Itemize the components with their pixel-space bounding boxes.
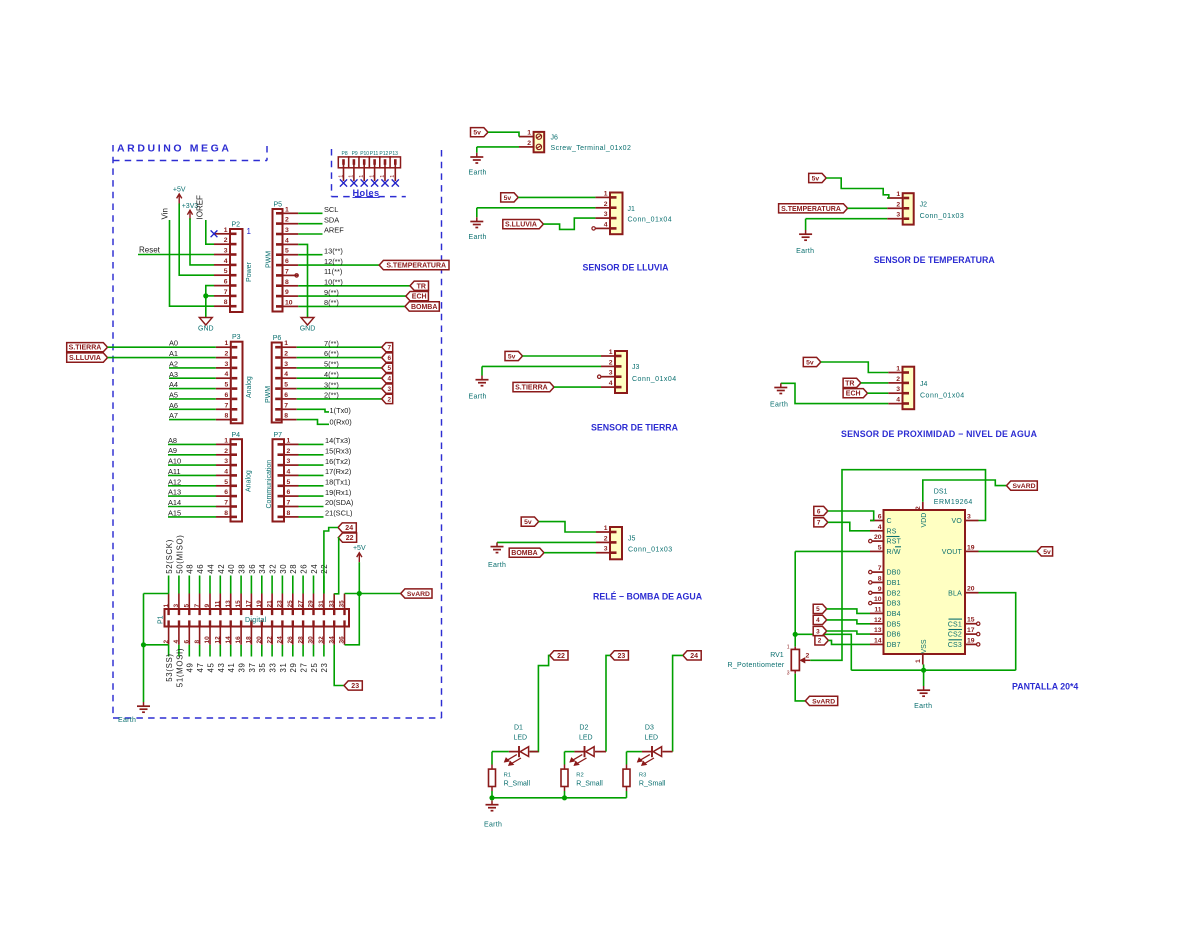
label AREF xyxy=(324,226,344,235)
wire P6.1 to hier 7 xyxy=(297,346,382,348)
svg-text:3: 3 xyxy=(388,386,392,393)
svg-text:2: 2 xyxy=(284,351,288,358)
svg-text:DB5: DB5 xyxy=(887,621,901,628)
wire R2 to earth rail xyxy=(564,791,566,798)
svg-text:Analog: Analog xyxy=(246,470,253,492)
svg-text:24: 24 xyxy=(690,653,698,660)
svg-text:IOREF: IOREF xyxy=(196,195,205,220)
hier label 5v (J4) xyxy=(803,357,821,366)
svg-text:DB0: DB0 xyxy=(887,570,901,577)
label LED (D3) xyxy=(645,735,659,742)
wire P1 bottom pin 20 label 35 xyxy=(261,645,263,657)
label A6 xyxy=(169,401,178,410)
svg-text:23: 23 xyxy=(351,683,359,690)
ground Earth (J2) xyxy=(796,230,814,255)
svg-text:SENSOR DE LLUVIA: SENSOR DE LLUVIA xyxy=(583,262,670,272)
wire TR to J4.2 xyxy=(861,382,889,384)
wire hier 22 to P1 pin 33 xyxy=(334,538,339,594)
ground Earth (J5) xyxy=(488,542,506,569)
svg-text:31: 31 xyxy=(318,600,325,608)
svg-text:2: 2 xyxy=(604,201,608,208)
label 49 (vertical) xyxy=(186,662,195,672)
wire P1 top pin 9 label 44 xyxy=(209,576,211,594)
svg-text:S.LLUVIA: S.LLUVIA xyxy=(69,355,101,362)
wire P1 top pin 1 label 52(SCK) xyxy=(168,576,170,594)
svg-text:SENSOR DE TEMPERATURA: SENSOR DE TEMPERATURA xyxy=(874,255,996,265)
svg-text:Earth: Earth xyxy=(488,562,506,569)
svg-text:3: 3 xyxy=(287,458,291,465)
svg-text:28: 28 xyxy=(297,636,304,644)
svg-text:6: 6 xyxy=(224,279,228,286)
svg-text:SCL: SCL xyxy=(324,205,338,214)
svg-text:1: 1 xyxy=(359,175,365,178)
svg-text:3: 3 xyxy=(967,514,971,521)
DS1 pin 15 CS1 xyxy=(948,617,980,629)
svg-text:A13: A13 xyxy=(168,488,181,497)
hier label 23 xyxy=(344,681,362,690)
hier label ECH (J4) xyxy=(843,389,867,398)
svg-text:33: 33 xyxy=(328,600,335,608)
hier label 23 (LED D2) xyxy=(610,651,628,660)
hole connector P12 (1-pin) xyxy=(380,157,390,181)
connector P1 (Digital, 36-pin) xyxy=(158,594,350,645)
svg-text:RV1: RV1 xyxy=(770,652,784,659)
svg-text:2: 2 xyxy=(806,653,810,660)
svg-text:27: 27 xyxy=(297,600,304,608)
svg-text:3: 3 xyxy=(284,361,288,368)
label 39 (vertical) xyxy=(238,662,247,672)
hole connector P11 (1-pin) xyxy=(369,157,379,181)
label D2 xyxy=(579,725,588,732)
svg-text:P13: P13 xyxy=(389,151,398,157)
svg-text:50(MISO): 50(MISO) xyxy=(175,534,184,573)
svg-text:R/W: R/W xyxy=(887,549,901,556)
svg-text:10: 10 xyxy=(204,636,211,644)
svg-text:1: 1 xyxy=(224,227,228,234)
svg-text:1: 1 xyxy=(390,175,396,178)
svg-text:22: 22 xyxy=(557,653,565,660)
svg-text:3: 3 xyxy=(896,212,900,219)
svg-text:7: 7 xyxy=(284,402,288,409)
IC DS1 ERM19264 (display) xyxy=(884,489,973,655)
svg-text:2: 2 xyxy=(818,638,822,645)
wire P1 top pin 31 label 22 xyxy=(323,576,325,594)
wire J5.2 to Earth xyxy=(497,541,596,543)
svg-text:6: 6 xyxy=(817,508,821,515)
ground Earth (J3) xyxy=(469,376,489,401)
label A9 xyxy=(168,446,177,455)
wire P5.4 to GND xyxy=(298,244,307,317)
svg-text:+5V: +5V xyxy=(173,187,186,194)
hier label SvARD xyxy=(401,589,432,598)
svg-text:1: 1 xyxy=(224,437,228,444)
svg-text:4: 4 xyxy=(287,468,291,475)
wire P6.7 1(Tx0) xyxy=(297,409,329,412)
wire P1 top pin 5 label 48 xyxy=(188,576,190,594)
svg-text:A7: A7 xyxy=(169,411,178,420)
wire 5v to J6.1 xyxy=(488,132,519,136)
svg-text:3: 3 xyxy=(896,386,900,393)
svg-text:7: 7 xyxy=(225,402,229,409)
svg-text:5(**): 5(**) xyxy=(324,360,339,369)
sheet box ARDUINO MEGA (dashed) xyxy=(113,143,442,719)
wire P1 bottom pin 28 label 27 xyxy=(302,645,304,657)
svg-text:2: 2 xyxy=(527,140,531,147)
hier label 5v (VOUT) xyxy=(1037,547,1053,556)
svg-text:17(Rx2): 17(Rx2) xyxy=(325,467,351,476)
svg-text:Earth: Earth xyxy=(118,717,136,724)
hier label 5 xyxy=(382,363,393,372)
svg-text:2: 2 xyxy=(224,448,228,455)
hier label 3 xyxy=(382,384,393,393)
wire hier 7 to DS1 RS xyxy=(828,522,870,531)
open pin end P5.7 xyxy=(295,274,298,277)
label 9(**) xyxy=(324,288,339,297)
svg-text:A4: A4 xyxy=(169,380,178,389)
wire J2.3 to Earth xyxy=(806,218,888,220)
label 7(**) xyxy=(324,339,339,348)
svg-text:4(**): 4(**) xyxy=(324,370,339,379)
svg-text:DB2: DB2 xyxy=(887,590,901,597)
svg-text:1: 1 xyxy=(380,175,386,178)
wire A4 to P3.5 xyxy=(169,388,216,390)
no-connect X on P10 xyxy=(361,179,368,186)
svg-text:34: 34 xyxy=(328,636,335,644)
svg-text:A14: A14 xyxy=(168,498,181,507)
svg-text:14: 14 xyxy=(225,636,232,644)
label SDA xyxy=(324,215,339,224)
svg-text:8: 8 xyxy=(878,575,882,582)
svg-text:Earth: Earth xyxy=(914,703,932,710)
label A1 xyxy=(169,349,178,358)
svg-text:20(SDA): 20(SDA) xyxy=(325,498,353,507)
wire P1 bottom pin 6 label 49 xyxy=(188,645,190,657)
svg-text:J1: J1 xyxy=(628,206,636,213)
svg-text:7(**): 7(**) xyxy=(324,339,339,348)
svg-text:D2: D2 xyxy=(579,725,588,732)
label 45 (vertical) xyxy=(206,662,215,672)
svg-text:+5V: +5V xyxy=(353,545,366,552)
note SENSOR DE PROXIMIDAD xyxy=(841,429,1038,439)
wire P5.10 BOMBA xyxy=(298,305,405,307)
svg-text:52(SCK): 52(SCK) xyxy=(165,539,174,574)
svg-text:6: 6 xyxy=(388,355,392,362)
label 48 (vertical) xyxy=(186,564,195,574)
wire hier 23 to D2 anode xyxy=(606,655,610,751)
svg-text:2: 2 xyxy=(225,351,229,358)
svg-text:23: 23 xyxy=(320,662,329,672)
wire A7 to P3.8 xyxy=(169,419,216,421)
wire bottom rail xyxy=(851,669,1015,671)
svg-text:2: 2 xyxy=(224,237,228,244)
svg-text:A8: A8 xyxy=(168,436,177,445)
wire down to RV1 pin1 xyxy=(794,551,796,646)
wire LED earth rail xyxy=(492,797,627,799)
svg-text:51(MOSI): 51(MOSI) xyxy=(175,648,184,687)
hole refs P8..P13 xyxy=(342,151,399,157)
hier label TR xyxy=(410,281,429,290)
connector J2 Conn_01x03 xyxy=(887,191,964,225)
hier label SvARD (RV1) xyxy=(805,696,837,705)
hier label S.LLUVIA xyxy=(67,353,108,362)
label 38 (vertical) xyxy=(238,564,247,574)
wire down to Earth xyxy=(143,645,145,702)
svg-text:12: 12 xyxy=(215,636,222,644)
svg-text:GND: GND xyxy=(300,326,316,333)
svg-text:RELÉ − BOMBA DE AGUA: RELÉ − BOMBA DE AGUA xyxy=(593,592,703,602)
svg-text:53(SS): 53(SS) xyxy=(165,653,174,681)
wire P7.8 21(SCL) xyxy=(299,516,324,518)
svg-text:0(Rx0): 0(Rx0) xyxy=(330,418,352,427)
svg-text:DB1: DB1 xyxy=(887,580,901,587)
label 12(**) xyxy=(324,257,343,266)
label 6(**) xyxy=(324,349,339,358)
label 28 (vertical) xyxy=(289,564,298,574)
svg-text:Conn_01x04: Conn_01x04 xyxy=(632,376,677,383)
svg-text:A9: A9 xyxy=(168,446,177,455)
hole connector P13 (1-pin) xyxy=(390,157,400,181)
label 17(Rx2) xyxy=(325,467,351,476)
svg-text:P11: P11 xyxy=(370,151,379,157)
svg-text:S.TIERRA: S.TIERRA xyxy=(69,345,102,352)
label 24 (vertical) xyxy=(310,564,319,574)
svg-text:VO: VO xyxy=(951,518,962,525)
wire D3 to R3 xyxy=(627,751,642,753)
wire P7.6 19(Rx1) xyxy=(299,495,324,497)
wire R3 to earth rail xyxy=(626,791,628,798)
wire down to Earth (J6) xyxy=(476,147,478,153)
svg-text:AREF: AREF xyxy=(324,226,344,235)
svg-text:LED: LED xyxy=(645,735,659,742)
svg-text:19: 19 xyxy=(967,637,975,644)
svg-text:TR: TR xyxy=(417,283,426,290)
svg-text:Holes: Holes xyxy=(353,188,380,198)
svg-text:39: 39 xyxy=(238,662,247,672)
svg-text:Communication: Communication xyxy=(266,460,273,509)
wire P6.4 to hier 4 xyxy=(297,377,382,379)
wire RV1 pin3 to SvARD xyxy=(795,674,805,701)
svg-text:P12: P12 xyxy=(379,151,388,157)
svg-text:J6: J6 xyxy=(551,135,559,142)
svg-text:7: 7 xyxy=(194,604,201,608)
wire Vin to P2.8 xyxy=(170,220,215,306)
svg-text:25: 25 xyxy=(287,600,294,608)
svg-text:3: 3 xyxy=(604,546,608,553)
svg-text:24: 24 xyxy=(345,525,353,532)
wire J1.2 to Earth xyxy=(477,207,596,209)
svg-text:9: 9 xyxy=(204,604,211,608)
label 19(Rx1) xyxy=(325,488,351,497)
svg-text:35: 35 xyxy=(339,600,346,608)
svg-text:5v: 5v xyxy=(504,195,512,202)
junction R1 rail xyxy=(489,795,494,800)
ground Earth (J6) xyxy=(469,153,487,177)
hier label 7 xyxy=(814,518,828,527)
svg-text:BOMBA: BOMBA xyxy=(511,550,537,557)
wire P1 top pin 13 label 40 xyxy=(230,576,232,594)
wire P1 bottom pin 12 label 43 xyxy=(219,645,221,657)
wire hier 24 to D3 anode xyxy=(673,655,683,751)
connector J4 Conn_01x04 xyxy=(888,366,964,410)
svg-text:19(Rx1): 19(Rx1) xyxy=(325,488,351,497)
svg-text:2: 2 xyxy=(609,359,613,366)
svg-text:RST: RST xyxy=(887,539,902,546)
svg-text:3: 3 xyxy=(224,458,228,465)
wire P1 top pin 27 label 26 xyxy=(302,576,304,594)
svg-text:Earth: Earth xyxy=(469,169,487,176)
hier label S.TIERRA (J3) xyxy=(513,382,554,391)
wire P1 top pin 23 label 30 xyxy=(281,576,283,594)
hier label ECH xyxy=(406,292,429,301)
wire P5.2 SDA xyxy=(298,223,322,225)
wire hier 2 to DB7 xyxy=(828,640,870,644)
svg-text:17: 17 xyxy=(246,600,253,608)
svg-text:J2: J2 xyxy=(920,202,928,209)
svg-text:4: 4 xyxy=(224,258,228,265)
svg-text:4: 4 xyxy=(609,380,613,387)
svg-text:28: 28 xyxy=(289,564,298,574)
wire P1 top pin 3 label 50(MISO) xyxy=(178,576,180,594)
svg-text:DB4: DB4 xyxy=(887,611,901,618)
label A8 xyxy=(168,436,177,445)
wire VDD to SvARD xyxy=(923,480,1007,502)
svg-text:5: 5 xyxy=(224,268,228,275)
label A4 xyxy=(169,380,178,389)
DS1 pin 11 DB4 xyxy=(870,606,901,618)
connector P4 (Analog A8-A15) xyxy=(216,432,253,522)
wire S.TIERRA to J3.4 xyxy=(554,386,601,388)
wire BOMBA to J5.3 xyxy=(544,552,596,554)
svg-text:J4: J4 xyxy=(920,381,928,388)
hier label 4 xyxy=(813,615,827,624)
svg-text:18: 18 xyxy=(246,636,253,644)
DS1 pin 10 DB3 xyxy=(869,596,901,608)
svg-text:13: 13 xyxy=(874,627,882,634)
svg-text:44: 44 xyxy=(206,564,215,574)
svg-text:Earth: Earth xyxy=(796,248,814,255)
wire A9 to P4.2 xyxy=(168,454,216,456)
svg-text:P5: P5 xyxy=(274,202,283,209)
svg-text:4: 4 xyxy=(604,221,608,228)
wire A6 to P3.7 xyxy=(169,408,216,410)
note PANTALLA 20*4 xyxy=(1012,682,1078,692)
svg-text:19: 19 xyxy=(967,544,975,551)
svg-text:D1: D1 xyxy=(514,725,523,732)
svg-text:4: 4 xyxy=(225,371,229,378)
label A15 xyxy=(168,508,181,517)
svg-text:6: 6 xyxy=(284,392,288,399)
wire A10 to P4.3 xyxy=(168,464,216,466)
svg-text:45: 45 xyxy=(206,662,215,672)
label A10 xyxy=(168,457,181,466)
label 26 (vertical) xyxy=(300,564,309,574)
svg-text:19: 19 xyxy=(256,600,263,608)
svg-text:2: 2 xyxy=(896,201,900,208)
svg-text:3(**): 3(**) xyxy=(324,380,339,389)
svg-text:CS2: CS2 xyxy=(948,632,962,639)
label Reset xyxy=(139,246,161,255)
svg-text:PWM: PWM xyxy=(265,251,272,268)
wire down to Earth (J1) xyxy=(476,208,478,218)
svg-text:P8: P8 xyxy=(342,151,348,157)
ground Earth (LED rail) xyxy=(484,801,502,829)
wire P1 pin34 to hier 23 xyxy=(334,645,344,686)
wire 5v to J5.1 xyxy=(539,522,596,532)
no-connect X on P9 xyxy=(350,179,357,186)
hier label TR (J4) xyxy=(843,378,861,387)
svg-text:Vin: Vin xyxy=(160,208,169,219)
svg-text:4: 4 xyxy=(284,371,288,378)
wire R/W to RV1 node xyxy=(795,550,870,552)
power +5V near P1 xyxy=(353,545,366,562)
wire P1 bottom pin 24 label 31 xyxy=(281,645,283,657)
DS1 pin 6 C xyxy=(870,514,892,526)
svg-text:22: 22 xyxy=(320,564,329,574)
svg-text:1: 1 xyxy=(284,340,288,347)
svg-text:36: 36 xyxy=(339,636,346,644)
wire rail down to P1 pin36 xyxy=(345,594,360,645)
resistor R1 xyxy=(489,765,531,792)
svg-text:Earth: Earth xyxy=(469,234,487,241)
note SENSOR DE TEMPERATURA xyxy=(874,255,996,265)
wire A8 to P4.1 xyxy=(168,443,216,445)
svg-text:29: 29 xyxy=(308,600,315,608)
wire D1 to R1 xyxy=(492,751,509,753)
DS1 pin 8 DB1 xyxy=(869,575,901,587)
wire hier 5 to DB4 xyxy=(827,609,870,614)
connector P6 (PWM 7-2) xyxy=(265,335,297,423)
svg-text:15(Rx3): 15(Rx3) xyxy=(325,446,351,455)
svg-text:S.TIERRA: S.TIERRA xyxy=(515,385,548,392)
svg-text:5v: 5v xyxy=(1043,549,1051,556)
hier label 4 xyxy=(382,374,393,383)
wire A5 to P3.6 xyxy=(169,398,216,400)
svg-text:13: 13 xyxy=(225,600,232,608)
svg-text:6: 6 xyxy=(285,258,289,265)
svg-text:23: 23 xyxy=(618,653,626,660)
svg-text:SENSOR DE TIERRA: SENSOR DE TIERRA xyxy=(591,423,679,433)
label 11(**) xyxy=(324,267,342,276)
label D3 xyxy=(645,725,654,732)
svg-text:ECH: ECH xyxy=(846,391,861,398)
svg-text:DB7: DB7 xyxy=(887,642,901,649)
wire P6.8 0(Rx0) xyxy=(297,420,329,425)
svg-text:13(**): 13(**) xyxy=(324,246,343,255)
hier label 3 xyxy=(813,626,827,635)
svg-text:36: 36 xyxy=(248,564,257,574)
DS1 pin 17 CS2 xyxy=(948,627,980,639)
label 14(Tx3) xyxy=(325,436,350,445)
wire 5v to J1.1 xyxy=(518,196,595,198)
connector P3 (Analog A0-A7) xyxy=(216,334,253,423)
svg-text:1: 1 xyxy=(247,227,252,236)
svg-text:16(Tx2): 16(Tx2) xyxy=(325,457,350,466)
svg-text:8: 8 xyxy=(224,510,228,517)
svg-text:9: 9 xyxy=(878,586,882,593)
wire S.TEMPERATURA to J2.2 xyxy=(848,207,888,209)
junction VSS rail xyxy=(921,668,926,673)
wire hier 3 to DB6 xyxy=(827,631,870,634)
svg-text:30: 30 xyxy=(279,564,288,574)
label 15(Rx3) xyxy=(325,446,351,455)
connector J5 Conn_01x03 xyxy=(596,525,673,559)
wire P6.3 to hier 5 xyxy=(297,367,382,369)
svg-text:ARDUINO MEGA: ARDUINO MEGA xyxy=(117,143,232,155)
svg-text:3: 3 xyxy=(816,628,820,635)
svg-text:R3: R3 xyxy=(639,773,646,779)
svg-text:DS1: DS1 xyxy=(934,489,948,496)
svg-text:1: 1 xyxy=(604,525,608,532)
